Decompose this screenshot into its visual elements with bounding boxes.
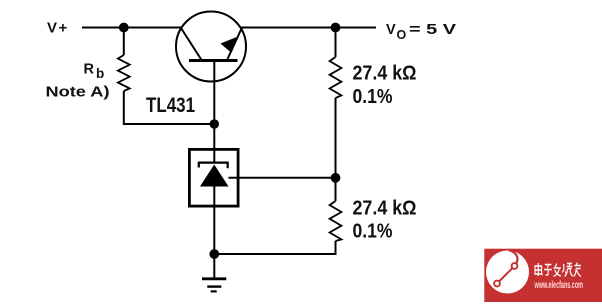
transistor Q1 base bar bbox=[189, 59, 238, 62]
svg-text:R: R bbox=[84, 61, 95, 77]
wire V+ to Rb bbox=[123, 28, 125, 56]
wire top rail right bbox=[241, 27, 376, 29]
子 bbox=[544, 265, 552, 276]
svg-text:0.1%: 0.1% bbox=[353, 221, 393, 243]
ground symbol bbox=[202, 279, 226, 292]
wire anode to ground node bbox=[213, 206, 215, 254]
烧 bbox=[562, 263, 573, 277]
svg-text:b: b bbox=[96, 66, 104, 81]
TL431 U1 cathode lead bbox=[213, 150, 215, 163]
label Rb bbox=[84, 61, 105, 81]
transistor Q1 collector slant bbox=[181, 28, 202, 60]
svg-text:27.4 kΩ: 27.4 kΩ bbox=[353, 62, 417, 84]
resistor Rb bbox=[118, 55, 130, 91]
wire reference line to divider tap bbox=[229, 177, 336, 179]
wire ground stem bbox=[213, 254, 215, 278]
svg-text:TL431: TL431 bbox=[146, 94, 195, 117]
resistor R1 27.4k top bbox=[330, 57, 342, 98]
TL431 U1 anode triangle bbox=[200, 165, 229, 187]
node junction dot top-right bbox=[331, 23, 341, 33]
svg-text:www.elecfans.com: www.elecfans.com bbox=[534, 280, 583, 291]
wire top rail left bbox=[82, 27, 181, 29]
svg-text:Note A): Note A) bbox=[46, 84, 110, 100]
node junction dot tap bbox=[331, 173, 341, 183]
label VO = 5 V bbox=[386, 22, 456, 42]
TL431 U1 cathode bar bbox=[199, 163, 228, 169]
watermark logo details bbox=[494, 250, 517, 286]
友 bbox=[574, 263, 581, 277]
resistor R2 27.4k bottom bbox=[330, 201, 342, 241]
发 bbox=[553, 264, 560, 277]
transistor Q1 emitter slant bbox=[228, 28, 243, 60]
TL431 U1 box bbox=[189, 149, 238, 206]
svg-text:= 5 V: = 5 V bbox=[409, 22, 456, 38]
svg-text:27.4 kΩ: 27.4 kΩ bbox=[353, 198, 417, 220]
wire top dot to R1 bbox=[335, 28, 337, 58]
wire R2 bottom to ground node bbox=[214, 241, 335, 254]
TL431 U1 anode lead bbox=[213, 187, 215, 208]
node junction dot base bbox=[210, 119, 219, 128]
wire base lead down bbox=[213, 61, 215, 151]
电 bbox=[535, 263, 543, 276]
svg-text:V+: V+ bbox=[47, 20, 69, 37]
svg-text:O: O bbox=[397, 28, 407, 42]
transistor Q1 emitter arrow bbox=[221, 37, 239, 54]
svg-text:0.1%: 0.1% bbox=[353, 86, 393, 108]
wire R1 bottom to tap bbox=[335, 98, 337, 201]
watermark red box bbox=[484, 249, 602, 302]
svg-text:V: V bbox=[386, 22, 396, 38]
watermark chinese text dianzifashaoyou bbox=[535, 263, 581, 277]
node junction dot top-left bbox=[119, 23, 129, 33]
transistor Q1 body bbox=[176, 12, 246, 82]
wire Rb bottom to base node bbox=[124, 91, 215, 124]
node junction dot bottom bbox=[209, 249, 219, 259]
watermark logo disc bbox=[486, 251, 529, 294]
